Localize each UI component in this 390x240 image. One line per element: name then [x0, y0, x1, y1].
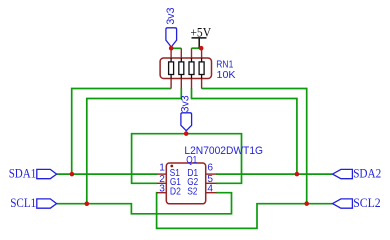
wire: SDA2 net horizontal [216, 173, 332, 175]
junction: SCL1 / RN1 pull-up [85, 201, 90, 206]
svg-text:S2: S2 [187, 187, 198, 198]
svg-text:L2N7002DWT1G: L2N7002DWT1G [184, 145, 263, 157]
Q1 pin name D2 [170, 187, 181, 198]
value L2N7002DWT1G [184, 145, 263, 157]
Q1 pin name S1 [170, 168, 181, 179]
wire: gate net G1-G2 to 3v3 [132, 134, 242, 184]
Q1 pin 4 stub [206, 192, 217, 194]
wire: SCL1 net with jog to Q1 pin 4 [57, 193, 232, 214]
wire: RN1 pin b bottom to SCL1 [87, 88, 182, 203]
Q1 pin number 4 [207, 183, 213, 194]
RN1 resistor element 3 [189, 62, 194, 75]
Q1 pin 5 stub [206, 182, 217, 184]
svg-text:D2: D2 [170, 187, 181, 198]
port SCL1 [10, 196, 56, 210]
port SCL2 [333, 196, 381, 210]
power symbol +5V [190, 25, 211, 48]
junction: SDA1 / RN1 pull-up [70, 172, 75, 177]
RN1 pin lead d [201, 48, 203, 88]
svg-text:6: 6 [207, 163, 213, 174]
Q1 pin 6 stub [206, 173, 217, 175]
svg-text:3: 3 [159, 183, 165, 194]
RN1 pin lead b [180, 48, 182, 88]
Q1 pin name S2 [187, 187, 198, 198]
Q1 pin 2 stub [157, 182, 166, 184]
svg-text:10K: 10K [217, 70, 236, 81]
Q1 pin number 1 [159, 163, 165, 174]
svg-text:RN1: RN1 [216, 59, 233, 70]
power symbol 3v3 top [165, 7, 177, 47]
wire: 3v3 to RN1 top pins a-b [171, 47, 181, 49]
RN1 resistor element 2 [179, 62, 184, 75]
svg-text:3v3: 3v3 [165, 7, 177, 24]
junction: 3v3 / gate net [184, 131, 189, 136]
value 10K [217, 70, 236, 81]
junction: +5V / RN1 pin d [199, 46, 204, 51]
Q1 pin number 6 [207, 163, 213, 174]
port SDA2 [333, 167, 382, 181]
svg-text:1: 1 [159, 163, 165, 174]
RN1 resistor element 1 [169, 62, 174, 75]
Q1 pin number 2 [159, 174, 165, 185]
wire: SDA1 net horizontal [57, 173, 158, 175]
svg-text:SDA2: SDA2 [353, 167, 381, 181]
svg-text:SCL1: SCL1 [10, 196, 36, 210]
RN1 resistor element 4 [199, 62, 204, 75]
label Q1 [186, 155, 197, 166]
Q1 pin 1 stub [157, 173, 166, 175]
svg-text:SDA1: SDA1 [9, 166, 37, 180]
wire: RN1 pin d bottom to SCL2 [202, 89, 307, 204]
label RN1 [216, 59, 233, 70]
wire: RN1 top pin c to +5V [192, 47, 202, 49]
resistor network RN1 body [160, 58, 211, 79]
Q1 pin name G1 [170, 177, 181, 188]
junction: SCL2 / RN1 pull-up [304, 201, 309, 206]
Q1 pin name G2 [187, 177, 198, 188]
svg-text:4: 4 [207, 183, 213, 194]
port SDA1 [9, 166, 57, 180]
Q1 pin 1 marker dot [170, 165, 173, 168]
Q1 pin number 5 [207, 174, 213, 185]
junction: 3v3 / RN1 pin a [169, 46, 174, 51]
Q1 pin number 3 [159, 183, 165, 194]
Q1 pin name D1 [187, 168, 198, 179]
wire: RN1 pin a bottom to SDA1 [72, 89, 171, 175]
power symbol 3v3 middle [180, 95, 192, 130]
svg-text:3v3: 3v3 [180, 95, 192, 112]
svg-text:SCL2: SCL2 [353, 196, 381, 210]
transistor Q1 body (2N7002DW dual MOSFET) [166, 163, 205, 204]
wire: Q1 pin 3 D2 to SCL2 [157, 193, 333, 229]
Q1 pin 3 stub [157, 192, 166, 194]
junction: SDA2 / RN1 pull-up [295, 172, 300, 177]
wire: RN1 pin c bottom to SDA2 [192, 88, 297, 174]
RN1 pin lead a [170, 48, 172, 88]
RN1 pin lead c [191, 48, 193, 88]
